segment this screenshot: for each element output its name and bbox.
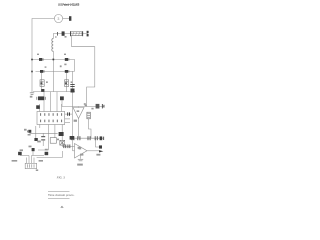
svg-text:-6-: -6- [60,205,63,209]
svg-text:FIG. 3: FIG. 3 [57,175,65,179]
svg-text:Time domain procs.: Time domain procs. [48,193,75,197]
svg-text:U.S.Patent 4,411,605: U.S.Patent 4,411,605 [58,4,80,7]
svg-text:3: 3 [57,17,59,21]
